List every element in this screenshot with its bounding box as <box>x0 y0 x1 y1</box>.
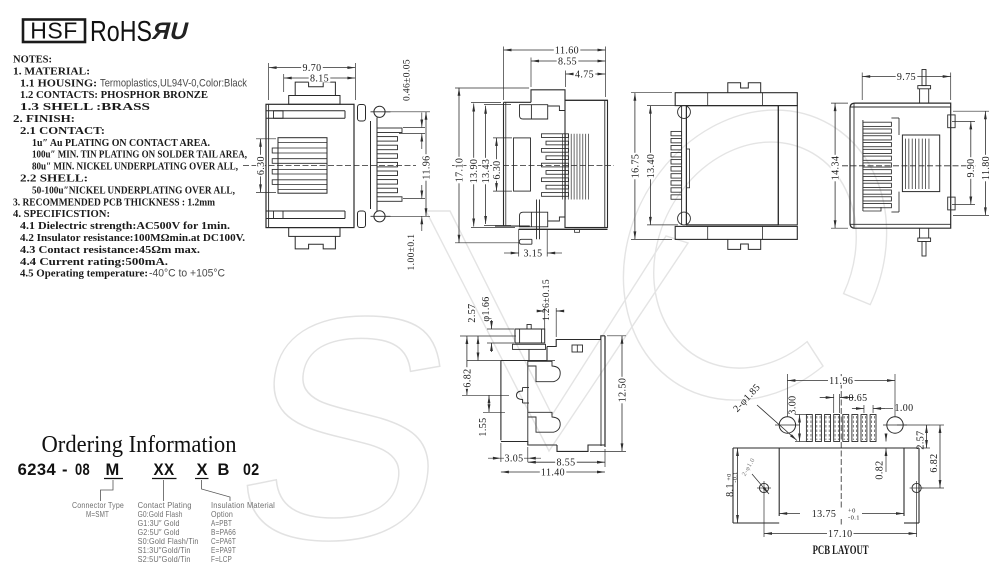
view2 top latch hook <box>520 105 548 119</box>
view2 dim 11.60 <box>503 47 505 101</box>
ordering leader M <box>101 480 114 501</box>
svg-text:13.40: 13.40 <box>646 154 657 179</box>
svg-text:6.30: 6.30 <box>256 156 267 175</box>
svg-text:2.57: 2.57 <box>916 430 927 449</box>
pcb dim 13.75 <box>779 513 904 515</box>
pcb small circle left <box>759 483 768 492</box>
svg-text:4. SPECIFICSTION:: 4. SPECIFICSTION: <box>13 209 110 220</box>
view5 latch hook 2 <box>528 412 560 432</box>
svg-text:2.1 CONTACT:: 2.1 CONTACT: <box>20 126 105 137</box>
svg-text:4.1 Dielectric strength:AC500V: 4.1 Dielectric strength:AC500V for 1min. <box>20 221 230 232</box>
svg-text:+0: +0 <box>848 508 856 515</box>
view4 dim 14.34 <box>831 102 848 104</box>
view1 bottom latch plate <box>289 228 340 237</box>
view4 right hook top <box>948 115 955 128</box>
svg-text:8.55: 8.55 <box>558 56 577 67</box>
view5 pin centerline extension <box>460 335 516 337</box>
pcb dim 11.96 between holes <box>786 374 788 417</box>
view2 dim 13.43 <box>484 104 511 106</box>
view3 rolled edge circle bottom <box>678 212 691 225</box>
view4 step to block bottom <box>891 211 899 213</box>
svg-text:0.46±0.05: 0.46±0.05 <box>403 59 413 101</box>
view3 bottom latch castle <box>728 239 761 249</box>
svg-text:4.2 Insulator resistance:100MΩ: 4.2 Insulator resistance:100MΩmin.at DC1… <box>20 233 245 244</box>
svg-text:2.57: 2.57 <box>467 303 478 322</box>
view3 right panel <box>778 106 797 225</box>
svg-text:11.60: 11.60 <box>555 45 579 56</box>
svg-text:2.2 SHELL:: 2.2 SHELL: <box>20 174 88 185</box>
svg-text:F=LCP: F=LCP <box>211 554 232 564</box>
view5 dim 6.82 <box>462 394 509 396</box>
view1 contact comb inner lines <box>278 142 327 144</box>
view4 body outline <box>850 103 951 228</box>
view1 bottom seam left tab <box>274 111 284 119</box>
view4 dim 9.75 <box>861 73 863 101</box>
svg-text:9.75: 9.75 <box>897 72 916 83</box>
view1 top shield seam band <box>266 210 345 212</box>
pcb dim 3.00 pad height <box>795 414 808 416</box>
svg-text:1.1 HOUSING:: 1.1 HOUSING: <box>20 78 97 89</box>
view1 shield rolled edge top circle <box>374 106 385 117</box>
view2 shield bottom tab <box>575 229 580 232</box>
view4 bottom tab <box>919 228 921 238</box>
svg-text:3.15: 3.15 <box>523 249 542 260</box>
svg-text:11.40: 11.40 <box>541 467 565 478</box>
svg-text:11.96: 11.96 <box>421 155 432 179</box>
view4 centerline <box>842 165 978 167</box>
view1 bottom latch castle <box>295 236 335 249</box>
view4 top tab <box>919 89 921 103</box>
svg-text:-: - <box>62 461 68 479</box>
view2 dim 17.10 <box>455 87 529 89</box>
svg-text:3. RECOMMENDED PCB THICKNESS :: 3. RECOMMENDED PCB THICKNESS : 1.2mm <box>13 197 215 208</box>
pcb centerline vertical <box>840 374 842 527</box>
svg-text:2. FINISH:: 2. FINISH: <box>13 114 75 125</box>
pcb dim 2.57 right <box>897 424 930 426</box>
svg-text:φ1.66: φ1.66 <box>481 296 492 321</box>
svg-text:1.3 SHELL :BRASS: 1.3 SHELL :BRASS <box>20 102 150 113</box>
view2 smt foot pad <box>519 239 532 244</box>
view5 dim 1.55 <box>483 411 505 413</box>
view5 window rect <box>572 345 583 352</box>
view4 right hook bottom <box>948 197 955 210</box>
svg-text:9.90: 9.90 <box>966 158 977 177</box>
view3 contact carrier strip <box>681 106 683 225</box>
svg-text:1.00±0.1: 1.00±0.1 <box>407 234 417 271</box>
pcb dim 0.82 <box>885 434 887 442</box>
pcb hole left <box>779 417 795 433</box>
view5 body right wall <box>604 336 606 447</box>
svg-text:RoHS: RoHS <box>90 16 152 48</box>
view5 bottom edge <box>501 442 557 446</box>
view5 bottom smt tab <box>557 445 605 451</box>
view1 shield rolled edge bottom circle <box>374 211 385 222</box>
svg-text:100u″ MIN. TIN PLATING ON SOLD: 100u″ MIN. TIN PLATING ON SOLDER TAIL AR… <box>32 150 247 161</box>
svg-text:9.70: 9.70 <box>302 63 321 74</box>
view5 dim 1.26 <box>544 308 546 329</box>
view1 right clip top <box>358 105 366 122</box>
svg-text:13.75: 13.75 <box>812 509 837 520</box>
svg-text:3.00: 3.00 <box>788 395 799 414</box>
view2 top edge right portion <box>565 99 608 101</box>
view2 dim 3.15 <box>518 229 520 257</box>
view5 dim 11.40 <box>501 471 605 473</box>
view1 body inner left line <box>268 104 270 227</box>
view4 left comb teeth <box>862 120 864 211</box>
svg-text:HSF: HSF <box>30 18 78 44</box>
view2 front wall <box>503 102 505 226</box>
svg-text:0.65: 0.65 <box>848 393 867 404</box>
view5 pin top tab <box>527 325 531 330</box>
view2 contact wires vertical <box>562 134 564 200</box>
view5 dim 8.55 <box>604 449 606 467</box>
svg-text:08: 08 <box>75 461 90 479</box>
view3 carrier inner bar <box>686 149 689 188</box>
view5 middle peg <box>523 387 530 389</box>
view4 teeth bottom step <box>863 207 881 211</box>
view2 dim 8.55 <box>530 58 532 88</box>
svg-text:1.2 CONTACTS: PHOSPHOR BRONZE: 1.2 CONTACTS: PHOSPHOR BRONZE <box>20 90 208 101</box>
ordering leader XX <box>163 480 165 501</box>
view5 dim phi1.66 <box>487 328 514 330</box>
view4 dim 11.80 <box>953 110 989 112</box>
view5 left wall <box>500 361 502 441</box>
svg-text:1u″ Au PLATING ON CONTACT AREA: 1u″ Au PLATING ON CONTACT AREA. <box>32 138 210 149</box>
svg-text:11.80: 11.80 <box>981 156 992 180</box>
view5 dim 3.05 <box>500 443 502 462</box>
view3 rolled edge circle top <box>678 106 691 119</box>
svg-text:02: 02 <box>243 461 260 479</box>
pcb dim 1.00 pad pitch <box>863 405 865 413</box>
view3 main body <box>686 106 778 225</box>
svg-text:4.3 Contact resistance:45Ωm ma: 4.3 Contact resistance:45Ωm max. <box>20 245 200 256</box>
svg-text:-40°C to +105°C: -40°C to +105°C <box>149 268 225 280</box>
svg-text:13.90: 13.90 <box>469 159 480 184</box>
view3 bottom band <box>675 226 797 239</box>
svg-text:M=SMT: M=SMT <box>86 509 109 519</box>
view4 step to block top <box>891 117 899 119</box>
view2 back block <box>565 100 608 227</box>
view2 dim 13.90 <box>471 102 501 104</box>
svg-text:80u″ MIN. NICKEL UNDERPLATING: 80u″ MIN. NICKEL UNDERPLATING OVER ALL, <box>32 162 238 173</box>
view2 bottom latch hook <box>520 212 548 227</box>
view2 top latch step <box>548 106 565 111</box>
svg-text:PCB LAYOUT: PCB LAYOUT <box>813 542 869 557</box>
svg-text:6.30: 6.30 <box>492 160 503 179</box>
svg-text:B: B <box>218 461 230 479</box>
svg-text:-0.1: -0.1 <box>733 471 739 482</box>
svg-text:ЯU: ЯU <box>150 18 192 45</box>
svg-text:1. MATERIAL:: 1. MATERIAL: <box>13 66 90 77</box>
svg-text:17.10: 17.10 <box>454 158 465 183</box>
view1 bottom shield seam band <box>266 110 345 112</box>
svg-text:Termoplastics,UL94V-0,Color:Bl: Termoplastics,UL94V-0,Color:Black <box>100 77 247 89</box>
view1 top latch castle <box>295 82 335 95</box>
svg-text:8.15: 8.15 <box>310 73 329 84</box>
svg-text:6234: 6234 <box>18 461 57 479</box>
view1 dim 11.96 <box>386 111 430 113</box>
view1 top latch plate <box>289 96 340 105</box>
view1 top seam left tab <box>274 211 284 219</box>
pcb pads <box>806 415 812 442</box>
view1 solder pins comb <box>377 128 402 133</box>
view3 top band <box>675 93 797 106</box>
UL recognized component mark <box>150 18 192 45</box>
svg-text:4.5 Operating temperature:: 4.5 Operating temperature: <box>20 269 148 280</box>
svg-text:17.10: 17.10 <box>828 529 853 540</box>
view2 centerline <box>452 165 614 167</box>
view1 dim 8.15 <box>283 74 285 92</box>
view4 center contact block <box>902 135 939 192</box>
pcb dim 6.82 right <box>921 487 944 489</box>
svg-text:6.82: 6.82 <box>929 453 940 472</box>
pcb dim 17.10 <box>763 495 765 537</box>
view5 plastic top edge <box>501 347 547 361</box>
view5 inner wall <box>527 361 529 442</box>
HSF logo box <box>23 20 85 43</box>
svg-text:3.05: 3.05 <box>504 454 523 465</box>
svg-text:X: X <box>197 461 208 479</box>
view1 body outline <box>266 104 354 227</box>
svg-text:12.50: 12.50 <box>617 378 628 403</box>
view4 dim 9.90 <box>952 120 975 122</box>
ordering leader X <box>202 480 231 501</box>
view2 top flange plate <box>531 90 565 103</box>
view3 top latch castle <box>728 83 761 93</box>
svg-text:XX: XX <box>154 461 175 479</box>
view2 contact teeth comb <box>542 134 569 138</box>
view1 contact long tabs <box>272 148 278 153</box>
view5 shield top edge <box>547 336 605 347</box>
pcb board outline <box>733 447 919 449</box>
svg-text:11.96: 11.96 <box>829 376 853 387</box>
view1 dim 6.30 <box>256 138 276 140</box>
svg-text:4.75: 4.75 <box>575 69 594 80</box>
pcb small circle right <box>912 483 921 492</box>
view2 dim 6.30 <box>493 137 512 139</box>
view1 contact comb frame <box>278 138 327 194</box>
view5 latch hook 1 <box>528 361 560 381</box>
svg-text:50-100u″NICKEL UNDERPLATING OV: 50-100u″NICKEL UNDERPLATING OVER ALL, <box>32 185 235 196</box>
svg-text:M: M <box>106 461 120 479</box>
svg-text:8.1: 8.1 <box>725 483 736 497</box>
svg-text:S2:5U″Gold/Tin: S2:5U″Gold/Tin <box>138 554 191 564</box>
view1 dim 9.70 <box>268 63 270 100</box>
svg-text:4.4 Current rating:500mA.: 4.4 Current rating:500mA. <box>20 257 168 268</box>
svg-text:6.82: 6.82 <box>462 368 473 387</box>
svg-text:1.00: 1.00 <box>894 403 913 414</box>
view4 center block slots <box>905 139 907 189</box>
svg-text:13.43: 13.43 <box>481 159 492 184</box>
view1 right clip bottom <box>358 211 366 228</box>
svg-text:Ordering Information: Ordering Information <box>42 432 237 458</box>
view2 contact tail vertical <box>536 200 538 240</box>
pcb dim 8.1 left <box>737 448 739 523</box>
ordering underlines <box>104 478 123 480</box>
svg-text:16.75: 16.75 <box>630 154 641 179</box>
view2 dim 4.75 <box>565 71 567 88</box>
pcb dim 0.65 pad width <box>833 394 835 413</box>
watermark letter V <box>426 211 688 451</box>
view5 pin support ledge <box>513 344 546 349</box>
view2 front wall bottom edge <box>495 225 530 227</box>
view5 top solder pin <box>515 329 545 343</box>
view2 back block bottom thick edge <box>519 228 608 230</box>
watermark letter C <box>605 110 906 400</box>
view1 centerline <box>243 165 416 167</box>
svg-text:1.55: 1.55 <box>478 417 489 436</box>
view3 dim 13.40 <box>647 105 678 107</box>
svg-text:0.82: 0.82 <box>875 460 886 479</box>
view5 dim 2.57 <box>477 336 479 361</box>
view3 contact teeth <box>671 131 682 135</box>
svg-text:14.34: 14.34 <box>831 156 842 181</box>
view5 dim 12.50 <box>607 335 626 337</box>
pcb hole right <box>887 417 903 433</box>
view1 dim 1.00 pin to edge <box>403 198 425 200</box>
svg-text:1.26±0.15: 1.26±0.15 <box>542 279 552 321</box>
svg-text:NOTES:: NOTES: <box>13 55 52 66</box>
view2 bottom latch step <box>548 217 565 221</box>
view1 pin carrier strips <box>370 121 372 209</box>
view2 contact support block <box>514 138 531 191</box>
view3 dim 16.75 <box>631 92 672 94</box>
svg-text:-0.1: -0.1 <box>848 515 860 522</box>
view1 dim 0.46 pin thickness <box>403 127 425 129</box>
